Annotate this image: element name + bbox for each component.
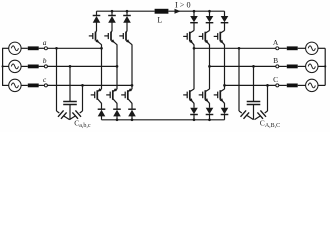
junction bottom rail leg2 left — [116, 118, 119, 121]
diode D3 — [123, 16, 131, 23]
wire cap tap B down — [253, 66, 255, 101]
transistor Q10 (IGBT) — [183, 89, 194, 103]
wire impedance to source C — [298, 84, 306, 86]
wire phase c line — [47, 84, 132, 86]
wire source A to bus — [318, 47, 325, 49]
wire impedance to terminal b — [39, 65, 45, 67]
svg-text:b: b — [43, 56, 47, 65]
wire rail to diode D9 — [224, 11, 226, 16]
wire diode D4 to rail — [101, 116, 103, 120]
wire impedance to terminal a — [39, 47, 45, 49]
junction right bus phase B — [324, 65, 326, 67]
wire leg7 mid — [193, 48, 195, 89]
junction phase a cap tap — [55, 47, 58, 50]
wire Q1 emitter to phase — [101, 45, 103, 49]
ac source vA — [306, 42, 318, 54]
terminal C — [276, 84, 279, 87]
wire bus to source a — [2, 47, 9, 49]
wire diode D3 to Q3 — [126, 22, 128, 31]
wire cap tap b down — [69, 66, 71, 101]
transistor Q9 (IGBT) — [214, 31, 225, 45]
wire leg9 mid — [224, 85, 226, 89]
junction phase b at leg2 — [116, 65, 119, 68]
wire phase A line — [194, 47, 276, 49]
ac source vb — [9, 60, 21, 72]
wire impedance to source A — [298, 47, 306, 49]
inductor Lsc (line impedance) — [28, 84, 39, 88]
wire Q9 emitter to phase — [224, 45, 226, 86]
terminal a — [44, 47, 47, 50]
ac source vC — [306, 79, 318, 91]
wire Q11 to diode D11 — [209, 103, 211, 108]
wire cap tap a down — [56, 48, 58, 111]
terminal A — [276, 47, 279, 50]
wire Q12 to diode D12 — [224, 103, 226, 108]
svg-text:L: L — [157, 15, 162, 24]
wire diode D1 to Q1 — [96, 22, 98, 31]
capacitor CA (slanted) — [239, 110, 254, 119]
junction phase A at leg — [193, 47, 196, 50]
wire leg2 mid — [116, 66, 118, 89]
junction phase B cap tap — [252, 65, 255, 68]
diode D4 — [98, 109, 106, 116]
transistor Q5 (IGBT) — [106, 88, 117, 103]
svg-text:A: A — [273, 38, 279, 47]
junction phase B at leg — [208, 65, 211, 68]
diode D6 — [128, 109, 136, 116]
wire Q3 emitter to phase — [131, 45, 133, 86]
wire rail to diode D8 — [209, 11, 211, 16]
wire diode D6 to rail — [131, 116, 133, 120]
wire bus to source c — [2, 84, 9, 86]
junction phase c at leg3 — [131, 84, 134, 87]
diode D11 — [206, 108, 214, 115]
transistor Q3 (IGBT) — [119, 31, 132, 45]
svg-text:a: a — [43, 38, 47, 47]
inductor Lsb (line impedance) — [28, 65, 39, 69]
wire bus to source b — [2, 65, 9, 67]
junction phase C at leg — [223, 84, 226, 87]
wire Q5 to diode D5 — [116, 103, 118, 109]
capacitor Cb (plates) — [63, 102, 77, 120]
wire rail to diode D7 — [193, 11, 195, 16]
wire Q6 to diode D6 — [131, 103, 133, 109]
inductor LsC (line impedance) — [287, 84, 298, 88]
wire source b to impedance — [21, 65, 28, 67]
transistor Q1 (IGBT) — [89, 31, 102, 45]
wire Q2 emitter to phase — [116, 45, 118, 67]
wire source B to bus — [318, 65, 325, 67]
transistor Q12 (IGBT) — [214, 89, 225, 103]
capacitor CB (plates) — [247, 102, 261, 120]
wire diode D5 to rail — [116, 116, 118, 120]
capacitor CC (slanted) — [255, 110, 268, 119]
terminal b — [44, 65, 47, 68]
inductor LsA (line impedance) — [287, 46, 298, 50]
wire rail to diode D2 — [111, 11, 113, 15]
inductor LsB (line impedance) — [287, 65, 298, 69]
wire diode D2 to Q2 — [111, 22, 113, 31]
wire terminal A to impedance — [279, 47, 287, 49]
diode D9 — [221, 16, 229, 23]
junction left bus phase b — [1, 65, 3, 67]
wire cap tap A down — [238, 48, 240, 111]
diode D2 — [108, 16, 116, 23]
diode D1 — [93, 16, 101, 23]
wire diode D7 to Q7 — [193, 23, 195, 31]
wire diode D12 to rail — [224, 114, 226, 120]
junction top rail leg1 right — [193, 10, 196, 13]
wire top rail right — [168, 10, 224, 12]
wire terminal B to impedance — [279, 65, 287, 67]
junction phase c cap tap — [81, 84, 84, 87]
svg-text:B: B — [273, 56, 278, 65]
diode D5 — [113, 109, 121, 116]
junction phase a at leg1 — [100, 47, 103, 50]
wire leg3 mid — [131, 85, 133, 89]
wire diode D8 to Q8 — [209, 23, 211, 31]
capacitor Cc (slanted) — [70, 110, 83, 119]
transistor Q8 (IGBT) — [199, 31, 210, 45]
wire source c to impedance — [21, 84, 28, 86]
wire Q8 emitter to phase — [209, 45, 211, 67]
svg-text:I > 0: I > 0 — [175, 1, 191, 10]
junction phase A cap tap — [238, 47, 241, 50]
junction top rail leg2 left — [111, 10, 114, 13]
transistor Q7 (IGBT) — [183, 31, 194, 45]
wire phase b line — [47, 65, 117, 67]
terminal B — [276, 65, 279, 68]
ac source vB — [306, 60, 318, 72]
wire phase a line — [47, 47, 101, 49]
capacitor Ca (slanted) — [57, 110, 70, 119]
wire Q4 to diode D4 — [101, 103, 103, 109]
wire diode D9 to Q9 — [224, 23, 226, 31]
wire rail to diode D3 — [126, 11, 128, 15]
wire rail to diode D1 — [96, 11, 98, 15]
diode D10 — [190, 108, 198, 115]
wire Q7 emitter to phase — [193, 45, 195, 49]
ac source vc — [9, 79, 21, 91]
inductor Lsa (line impedance) — [28, 46, 39, 50]
wire source a to impedance — [21, 47, 28, 49]
transistor Q4 (IGBT) — [91, 88, 102, 103]
wire top rail left — [97, 10, 155, 12]
wire source C to bus — [318, 84, 325, 86]
junction phase b cap tap — [69, 65, 72, 68]
junction bottom rail leg3 left — [131, 118, 134, 121]
junction phase C cap tap — [266, 84, 269, 87]
inductor L — [155, 9, 169, 14]
diode D12 — [221, 108, 229, 115]
transistor Q2 (IGBT) — [104, 31, 117, 45]
transistor Q6 (IGBT) — [121, 88, 132, 103]
diode D7 — [190, 16, 198, 23]
svg-text:C: C — [273, 75, 278, 84]
junction top rail leg2 right — [208, 10, 211, 13]
wire Q10 to diode D10 — [193, 103, 195, 108]
wire diode D10 to rail — [193, 114, 195, 120]
wire right neutral bus — [324, 48, 326, 85]
junction bottom rail leg1 right — [193, 118, 196, 121]
junction top rail leg3 left — [126, 10, 129, 13]
wire leg1 mid — [101, 48, 103, 89]
wire phase C line — [225, 84, 276, 86]
wire cap tap C down — [267, 85, 269, 111]
transistor Q11 (IGBT) — [199, 89, 210, 103]
wire bottom rail — [102, 119, 225, 121]
wire cap tap c down — [82, 85, 84, 111]
wire terminal C to impedance — [279, 84, 287, 86]
wire left neutral bus — [2, 48, 4, 85]
junction bottom rail leg2 right — [208, 118, 211, 121]
current arrow I — [175, 9, 181, 14]
diode D8 — [206, 16, 214, 23]
wire impedance to source B — [298, 65, 306, 67]
wire leg8 mid — [209, 66, 211, 89]
wire phase B line — [210, 65, 276, 67]
wire diode D11 to rail — [209, 114, 211, 120]
ac source va — [9, 42, 21, 54]
terminal c — [44, 84, 47, 87]
wire impedance to terminal c — [39, 84, 45, 86]
